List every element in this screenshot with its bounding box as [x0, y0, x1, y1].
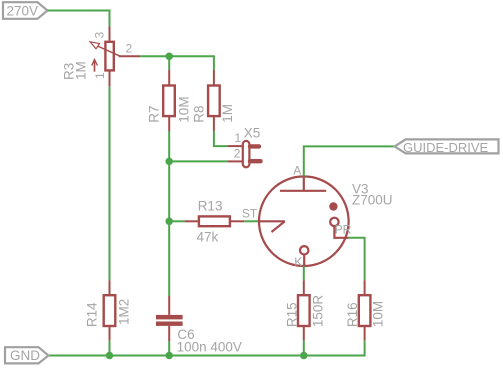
resistor R7 bottom lead: [168, 116, 170, 131]
wire PR to R16 top: [349, 238, 365, 280]
junction at pot pin2 / R7: [165, 53, 173, 61]
resistor R14 top lead: [109, 280, 111, 295]
junction X5 pin2 branch: [165, 158, 173, 166]
svg-text:100n 400V: 100n 400V: [177, 339, 242, 354]
connector X5 pin 1 lead: [228, 145, 243, 147]
svg-text:R7: R7: [147, 105, 162, 122]
potentiometer R3 pin 2 lead: [119, 55, 141, 57]
svg-text:A: A: [293, 163, 301, 177]
svg-text:2: 2: [126, 42, 133, 56]
junction R13 branch: [165, 218, 173, 226]
svg-text:R8: R8: [192, 105, 207, 122]
connector X5 pin 2 lead: [228, 160, 243, 162]
svg-text:10M: 10M: [371, 301, 386, 327]
svg-text:150R: 150R: [311, 295, 326, 328]
potentiometer R3 body: [90, 42, 121, 72]
wire 270V flag to pot top corner: [48, 11, 110, 27]
svg-text:1M: 1M: [74, 61, 89, 80]
svg-text:PR: PR: [335, 223, 352, 237]
capacitor C6 top lead: [168, 296, 170, 315]
wire junction to X5 pin 2: [169, 160, 228, 162]
tube V3 primer electrode: [330, 218, 348, 238]
wire C6 bottom to rail: [168, 341, 170, 355]
potentiometer R3 pin 3 lead: [109, 27, 111, 41]
svg-text:1: 1: [93, 72, 107, 79]
resistor R16 body: [359, 295, 371, 326]
svg-text:R15: R15: [285, 302, 300, 327]
svg-text:GUIDE-DRIVE: GUIDE-DRIVE: [403, 140, 489, 155]
resistor R16 top lead: [364, 280, 366, 295]
svg-text:47k: 47k: [197, 229, 219, 244]
wire R14 net from pot pin1 down: [109, 87, 111, 281]
resistor R16 bottom lead: [364, 326, 366, 341]
wire junction to R13 left: [169, 220, 184, 222]
resistor R8 bottom lead: [213, 116, 215, 131]
svg-text:1M2: 1M2: [117, 299, 132, 325]
wire R15 bottom to rail: [303, 341, 305, 356]
resistor R14 body: [104, 295, 116, 326]
wire R8 bottom to X5 pin 1: [214, 131, 228, 146]
resistor R8 body: [208, 86, 220, 117]
junction rail at C6: [165, 352, 173, 360]
svg-text:R16: R16: [345, 302, 360, 327]
wire pot pin2 to R8 top: [140, 56, 214, 70]
resistor R7 body: [163, 86, 175, 117]
wire R13 to tube ST pin: [244, 220, 259, 222]
resistor R15 bottom lead: [303, 326, 305, 341]
wire R14 bottom to rail: [109, 341, 111, 356]
tube V3 starter electrode: [259, 221, 285, 232]
wire anode to GUIDE-DRIVE: [304, 146, 395, 176]
capacitor C6 bottom lead: [168, 326, 170, 342]
svg-text:3: 3: [93, 32, 107, 39]
svg-text:2: 2: [234, 147, 241, 161]
svg-text:ST: ST: [242, 207, 258, 221]
wire K to R15 top: [303, 266, 305, 280]
tube V3 envelope: [259, 176, 349, 266]
ground rail wire: [49, 355, 365, 357]
resistor R13 left lead: [185, 220, 199, 222]
svg-text:1: 1: [235, 131, 242, 145]
potentiometer R3 pin 1 lead: [109, 71, 111, 86]
svg-text:Z700U: Z700U: [352, 193, 393, 208]
junction rail at R14: [106, 352, 114, 360]
svg-text:K: K: [294, 255, 302, 269]
tube V3 anode electrode: [280, 176, 326, 190]
ground flag GND: [5, 347, 49, 363]
svg-text:R14: R14: [85, 302, 100, 327]
svg-text:270V: 270V: [7, 3, 39, 18]
resistor R13 body: [199, 216, 230, 226]
net flag GUIDE-DRIVE: [395, 139, 499, 155]
resistor R13 right lead: [230, 220, 244, 222]
resistor R7 top lead: [168, 70, 170, 86]
svg-text:GND: GND: [10, 348, 40, 363]
resistor R14 bottom lead: [109, 326, 111, 341]
connector X5 body: [243, 141, 261, 167]
wire R7 bottom down the main vertical net: [168, 131, 170, 296]
svg-text:10M: 10M: [177, 96, 192, 122]
resistor R8 top lead: [213, 70, 215, 86]
capacitor C6 plates: [156, 315, 183, 326]
svg-text:R13: R13: [198, 198, 223, 213]
wire R16 bottom to rail: [304, 341, 365, 356]
resistor R15 body: [298, 295, 310, 326]
junction rail at R15: [300, 352, 308, 360]
tube V3 gas dot: [329, 202, 337, 210]
supply flag 270V: [3, 2, 48, 19]
tube V3 cathode electrode: [300, 246, 308, 266]
resistor R15 top lead: [303, 280, 305, 295]
svg-text:X5: X5: [244, 125, 261, 140]
wire junction down to R7: [168, 56, 170, 70]
svg-text:1M: 1M: [220, 104, 235, 123]
